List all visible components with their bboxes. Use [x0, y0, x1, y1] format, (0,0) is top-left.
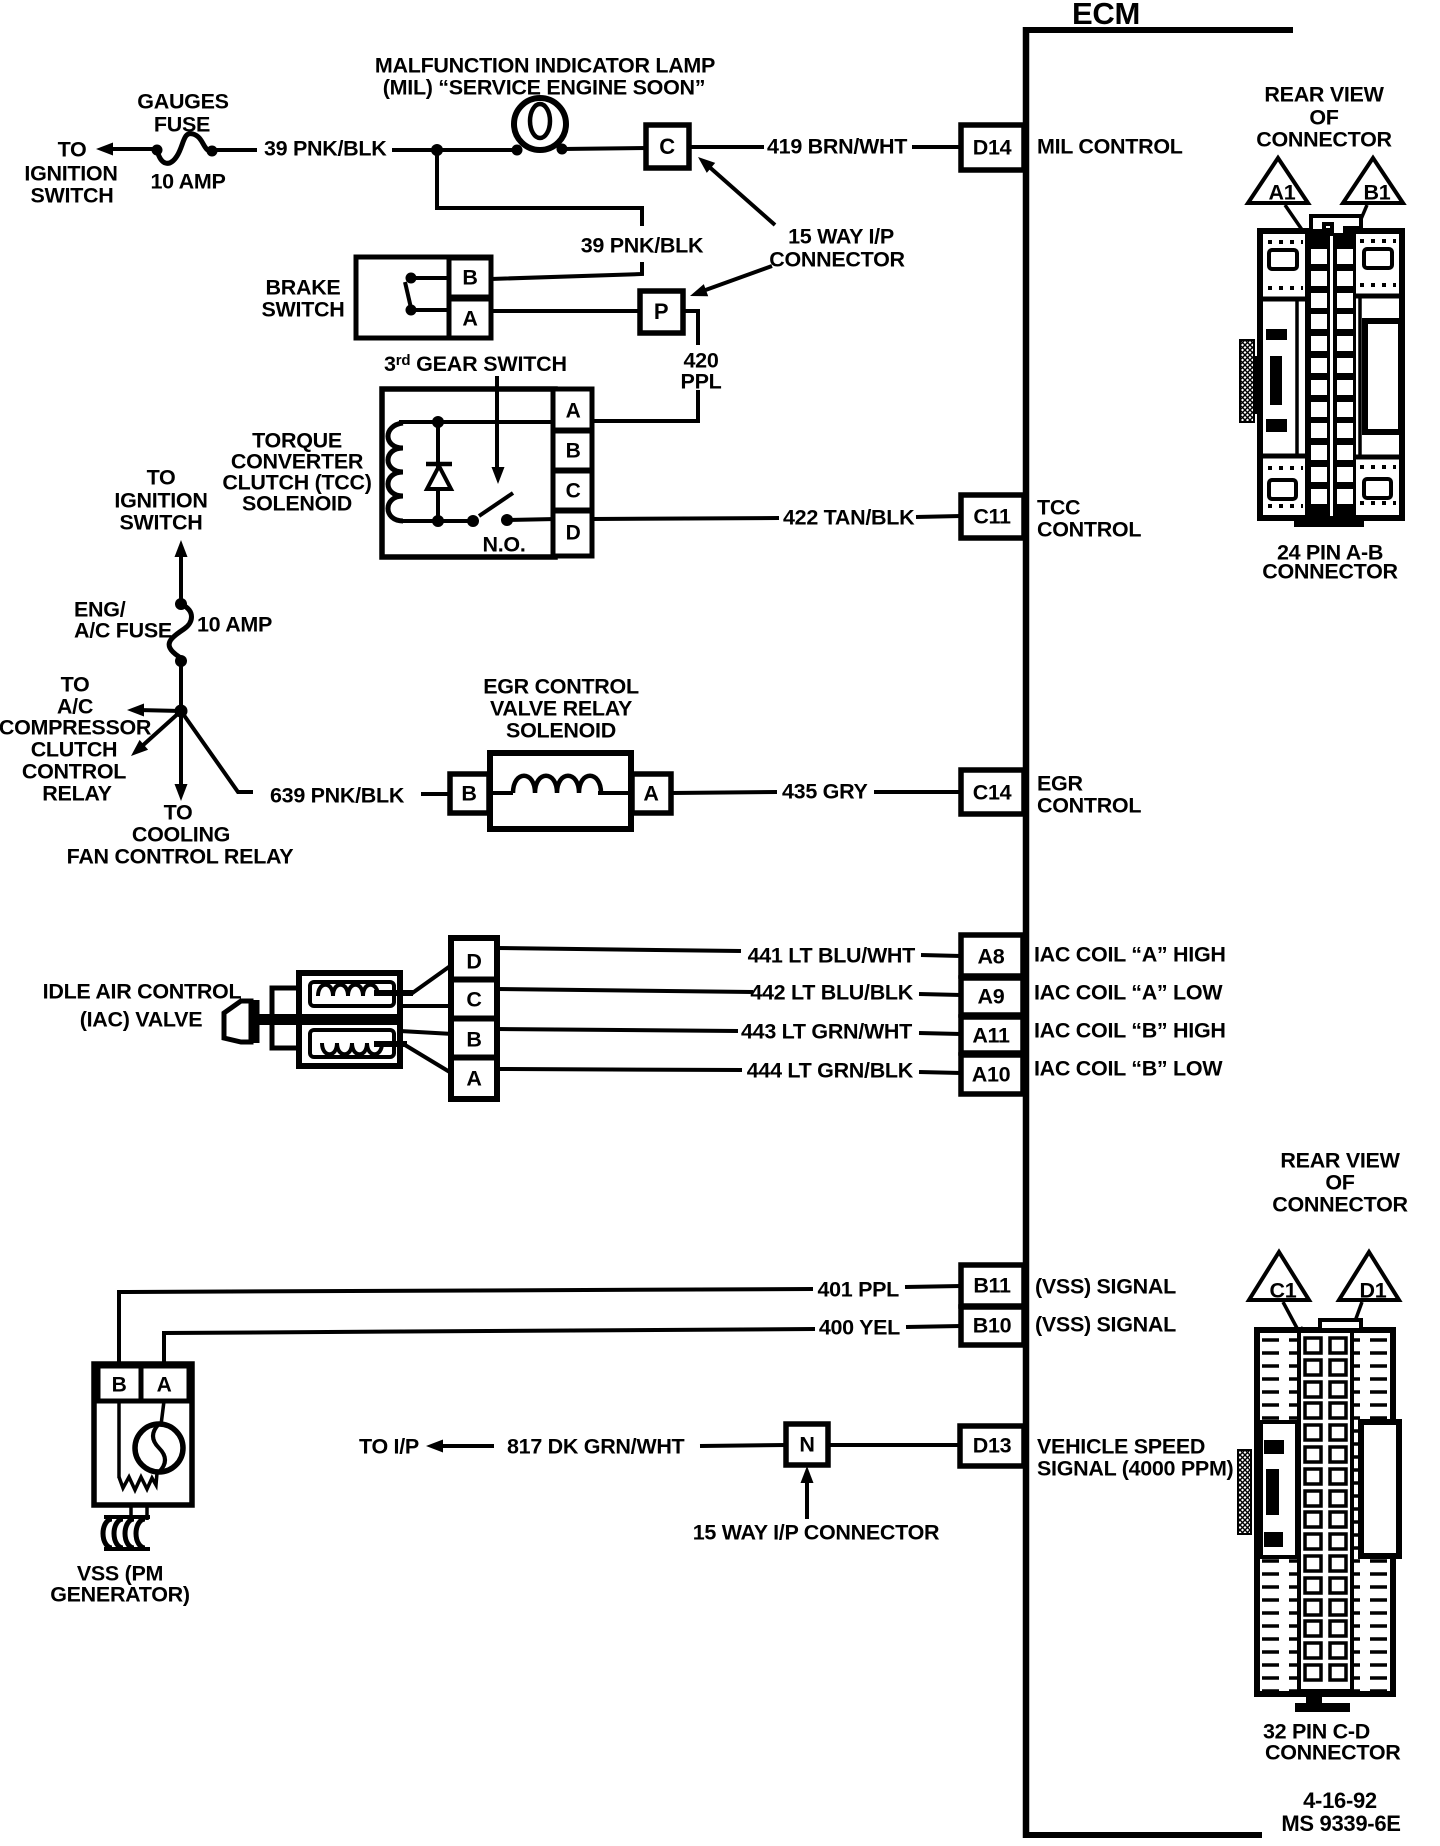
ECM top boundary line: [1023, 27, 1293, 33]
brake switch contacts: [411, 276, 449, 280]
svg-text:A1: A1: [1269, 181, 1296, 205]
svg-text:B10: B10: [973, 1314, 1012, 1338]
svg-text:B: B: [566, 439, 581, 462]
svg-text:OF: OF: [1309, 106, 1338, 130]
IAC coil A: [310, 982, 394, 1006]
IAC valve pintle cone: [224, 1001, 251, 1042]
TCC terminal block A B C D: [553, 389, 592, 556]
svg-text:SOLENOID: SOLENOID: [506, 719, 616, 743]
wire 639 label to EGR B: [421, 792, 452, 796]
svg-text:D: D: [466, 950, 481, 974]
arrow 15-way to pin C: [706, 164, 775, 225]
svg-text:CONNECTOR: CONNECTOR: [1265, 1741, 1401, 1765]
svg-text:TCC: TCC: [1037, 496, 1080, 520]
svg-text:COOLING: COOLING: [132, 823, 230, 847]
svg-text:CONNECTOR: CONNECTOR: [1272, 1193, 1408, 1217]
svg-text:MS 9339-6E: MS 9339-6E: [1281, 1811, 1400, 1836]
IAC valve shaft: [254, 1014, 397, 1025]
24 pin connector pins column B: [1337, 249, 1353, 264]
svg-text:B: B: [462, 266, 477, 290]
IAC valve collar: [272, 988, 300, 1048]
svg-text:CONTROL: CONTROL: [1037, 794, 1141, 818]
svg-text:IAC COIL “B” LOW: IAC COIL “B” LOW: [1034, 1057, 1223, 1081]
arrow D1 to connector: [1350, 1302, 1362, 1335]
arrow to ignition switch: [106, 147, 158, 151]
ECM bottom boundary line: [1023, 1832, 1262, 1838]
32 pin connector top tab: [1320, 1320, 1361, 1330]
svg-text:P: P: [654, 299, 668, 324]
wire 444 label to A10: [919, 1072, 961, 1073]
svg-text:444 LT GRN/BLK: 444 LT GRN/BLK: [747, 1059, 914, 1083]
arrow 3rd gear switch pointer: [495, 376, 499, 468]
wire junction to MIL lamp: [437, 148, 519, 152]
TCC solenoid body: [382, 389, 555, 557]
svg-text:VEHICLE SPEED: VEHICLE SPEED: [1037, 1435, 1205, 1459]
arrow C1 to connector: [1283, 1302, 1298, 1330]
IAC terminal block D C B A: [451, 938, 497, 1099]
svg-text:BRAKE: BRAKE: [266, 276, 341, 300]
ECM pin B11: [961, 1265, 1024, 1306]
TCC internal top wire: [399, 420, 556, 424]
callout triangle C1: [1249, 1252, 1309, 1300]
24 pin connector right cavity large: [1365, 321, 1401, 432]
32 pin connector pins column D: [1330, 1338, 1346, 1353]
EGR solenoid body: [490, 753, 631, 829]
VSS PM generator body: [94, 1364, 192, 1505]
svg-text:CONNECTOR: CONNECTOR: [1262, 560, 1398, 584]
svg-text:15 WAY I/P CONNECTOR: 15 WAY I/P CONNECTOR: [693, 1521, 940, 1545]
32 pin connector left cavity: [1261, 1422, 1297, 1557]
wire P to 420 PPL: [683, 311, 698, 345]
wire IAC A to 444 label: [497, 1069, 742, 1070]
wire 419 label to D14: [912, 145, 961, 149]
svg-text:GAUGES: GAUGES: [137, 90, 228, 114]
connector pin N (15 way I/P): [786, 1424, 828, 1465]
ECM pin D14: [961, 125, 1024, 170]
wire 422 label to C11: [916, 516, 961, 517]
node distribution junction: [175, 705, 188, 718]
wire 39 PNK/BLK branch: [437, 150, 642, 226]
ECM pin D13: [960, 1426, 1024, 1466]
wire IAC coil B high to terminal B: [400, 1031, 453, 1034]
callout triangle D1: [1339, 1252, 1399, 1300]
svg-text:CONTROL: CONTROL: [22, 760, 126, 784]
wire 817 label to N: [700, 1445, 786, 1446]
ECM pin A9: [961, 978, 1023, 1015]
wire 441 label to A8: [921, 955, 961, 956]
svg-text:A: A: [462, 307, 477, 331]
svg-text:C1: C1: [1270, 1279, 1297, 1303]
wire fuse to junction: [179, 661, 183, 713]
32 pin connector lock tab hatched: [1238, 1450, 1251, 1534]
svg-text:435 GRY: 435 GRY: [782, 780, 868, 804]
svg-text:IGNITION: IGNITION: [24, 162, 117, 186]
wire IAC B to 443 label: [497, 1029, 738, 1031]
svg-text:422 TAN/BLK: 422 TAN/BLK: [783, 506, 915, 530]
wire fuse to label 39 PNK/BLK: [212, 148, 257, 152]
wire TCC D to 422 label: [592, 518, 779, 519]
svg-text:B1: B1: [1364, 181, 1391, 205]
wire 401 label to B11: [905, 1286, 961, 1287]
wire 442 label to A9: [919, 994, 961, 995]
svg-text:REAR VIEW: REAR VIEW: [1280, 1149, 1400, 1173]
32 pin connector hatch lines: [1262, 1340, 1389, 1691]
24 pin connector top-left cavity: [1269, 250, 1297, 269]
24 pin connector bottom-left cavity: [1269, 480, 1296, 499]
fuse F2 ENG/AC 10 AMP: [175, 598, 187, 610]
svg-text:TO: TO: [164, 801, 193, 825]
svg-text:A: A: [643, 782, 658, 806]
svg-text:PPL: PPL: [681, 370, 722, 394]
arrow 15-way to pin N: [805, 1477, 809, 1519]
wire VSS A to 400 label: [164, 1329, 815, 1366]
ECM pin C14: [961, 770, 1024, 814]
wire EGR A to 435 label: [671, 792, 777, 793]
svg-text:RELAY: RELAY: [42, 782, 111, 806]
wire IAC coil B low to terminal A: [374, 1041, 407, 1047]
svg-text:ECM: ECM: [1072, 0, 1140, 31]
arrow B1 to connector: [1353, 205, 1367, 238]
svg-text:B11: B11: [973, 1274, 1011, 1298]
svg-text:B: B: [112, 1373, 127, 1396]
svg-text:N: N: [799, 1433, 814, 1457]
svg-text:N.O.: N.O.: [483, 533, 526, 557]
svg-text:CONNECTOR: CONNECTOR: [1256, 128, 1392, 152]
32 pin connector pin channel: [1299, 1331, 1352, 1691]
ECM pin C11: [961, 495, 1024, 538]
24 pin connector body: [1260, 231, 1402, 518]
svg-text:CONNECTOR: CONNECTOR: [769, 248, 905, 272]
ECM pin B10: [961, 1307, 1024, 1345]
svg-text:IGNITION: IGNITION: [114, 489, 207, 513]
wire junction to 639 PNK/BLK: [181, 711, 253, 792]
svg-text:400 YEL: 400 YEL: [819, 1316, 900, 1340]
fuse F1 GAUGES 10 AMP: [152, 145, 163, 156]
svg-text:442 LT BLU/BLK: 442 LT BLU/BLK: [750, 981, 913, 1005]
svg-text:C: C: [466, 988, 481, 1012]
brake switch terminal A: [449, 299, 491, 338]
svg-text:D13: D13: [973, 1434, 1012, 1458]
svg-text:A: A: [566, 399, 581, 422]
EGR solenoid terminal B: [450, 774, 489, 813]
32 pin connector right cavity large: [1361, 1422, 1399, 1556]
svg-text:IDLE AIR CONTROL: IDLE AIR CONTROL: [43, 980, 242, 1004]
svg-text:SIGNAL (4000 PPM): SIGNAL (4000 PPM): [1037, 1457, 1234, 1481]
24 pin connector keyway bars: [1266, 329, 1287, 340]
32 pin connector body: [1257, 1330, 1393, 1694]
arrow A1 to connector: [1285, 205, 1307, 237]
svg-text:CONTROL: CONTROL: [1037, 518, 1141, 542]
wire 400 label to B10: [906, 1326, 961, 1327]
wire IAC coil A high to terminal D: [374, 990, 413, 996]
svg-text:B: B: [461, 782, 476, 806]
node junction 39 PNK/BLK: [431, 144, 443, 156]
node TCC coil top: [432, 416, 444, 428]
ECM pin A10: [961, 1055, 1023, 1094]
svg-text:639 PNK/BLK: 639 PNK/BLK: [270, 784, 405, 808]
24 pin connector bottom tab: [1294, 518, 1364, 527]
svg-text:10 AMP: 10 AMP: [197, 613, 272, 637]
diode TCC clamp: [436, 422, 440, 521]
ECM pin A8: [961, 935, 1023, 976]
wire IAC coil A low to terminal C: [400, 1004, 453, 1008]
svg-text:15 WAY I/P: 15 WAY I/P: [788, 225, 894, 249]
wire 435 label to C14: [874, 790, 961, 794]
VSS terminal B: [98, 1366, 141, 1401]
svg-text:A: A: [466, 1067, 481, 1091]
brake switch terminal B: [449, 258, 491, 297]
callout triangle B1: [1343, 158, 1403, 203]
wire C to 419 label: [689, 145, 764, 149]
24 pin connector top-right cavity: [1364, 249, 1392, 268]
svg-text:C11: C11: [973, 505, 1011, 529]
svg-text:A8: A8: [978, 945, 1005, 969]
svg-text:TO: TO: [147, 466, 176, 490]
svg-text:EGR: EGR: [1037, 772, 1083, 796]
svg-text:FAN CONTROL RELAY: FAN CONTROL RELAY: [67, 845, 294, 869]
svg-text:4-16-92: 4-16-92: [1303, 1788, 1377, 1813]
IAC coil B: [310, 1030, 394, 1057]
svg-text:B: B: [466, 1028, 481, 1052]
svg-text:IAC COIL “A” LOW: IAC COIL “A” LOW: [1034, 981, 1223, 1005]
svg-text:A11: A11: [972, 1024, 1010, 1048]
svg-text:TO: TO: [61, 673, 90, 697]
svg-text:GENERATOR): GENERATOR): [50, 1583, 190, 1607]
svg-text:441 LT BLU/WHT: 441 LT BLU/WHT: [748, 944, 916, 968]
24 pin connector left rib: [1295, 300, 1299, 455]
wire VSS B to 401 label: [119, 1289, 813, 1366]
wire 420 PPL to TCC terminal A: [594, 390, 698, 421]
24 pin connector lock tab hatched: [1240, 340, 1254, 422]
svg-text:A10: A10: [972, 1063, 1011, 1087]
svg-text:39 PNK/BLK: 39 PNK/BLK: [581, 234, 704, 258]
24 pin connector pins column A: [1311, 249, 1327, 264]
svg-text:TO: TO: [58, 138, 87, 162]
brake switch body: [356, 257, 491, 338]
wire 443 label to A11: [919, 1033, 961, 1034]
svg-text:443 LT GRN/WHT: 443 LT GRN/WHT: [741, 1020, 912, 1044]
resistor in VSS: [117, 1401, 121, 1478]
24 pin connector bottom-right cavity: [1364, 479, 1391, 498]
wire IAC D to 441 label: [497, 948, 741, 951]
svg-text:TO I/P: TO I/P: [359, 1435, 419, 1459]
svg-text:39 PNK/BLK: 39 PNK/BLK: [264, 137, 387, 161]
svg-text:CLUTCH: CLUTCH: [31, 738, 118, 762]
TCC coil: [388, 423, 403, 521]
EGR solenoid terminal A: [632, 774, 671, 813]
TCC switch contacts: [467, 515, 479, 527]
wire N to D13: [828, 1443, 961, 1447]
svg-text:IAC COIL “B” HIGH: IAC COIL “B” HIGH: [1034, 1019, 1226, 1043]
svg-text:SWITCH: SWITCH: [120, 511, 203, 535]
svg-text:(IAC) VALVE: (IAC) VALVE: [80, 1008, 203, 1032]
svg-text:(VSS) SIGNAL: (VSS) SIGNAL: [1035, 1313, 1176, 1337]
arrow to A/C compressor relay (horizontal): [138, 710, 181, 711]
svg-text:3rd GEAR SWITCH: 3rd GEAR SWITCH: [384, 352, 567, 376]
IAC valve body: [299, 973, 400, 1066]
arrow 15-way to pin P: [700, 266, 772, 292]
svg-text:MIL CONTROL: MIL CONTROL: [1037, 135, 1183, 159]
VSS pickup coil: [129, 1505, 133, 1520]
32 pin connector bottom tab: [1306, 1694, 1322, 1706]
32 pin connector pins column C: [1305, 1338, 1321, 1353]
TCC internal bottom wire: [399, 519, 473, 523]
connector pin P (15 way I/P): [640, 291, 683, 333]
svg-text:EGR CONTROL: EGR CONTROL: [483, 675, 639, 699]
svg-text:10 AMP: 10 AMP: [150, 170, 225, 194]
wire IAC C to 442 label: [497, 989, 753, 992]
svg-text:D: D: [566, 521, 581, 544]
svg-text:SWITCH: SWITCH: [262, 298, 345, 322]
svg-text:419 BRN/WHT: 419 BRN/WHT: [767, 135, 907, 159]
svg-text:C: C: [566, 479, 581, 502]
svg-text:OF: OF: [1325, 1171, 1354, 1195]
svg-text:IAC COIL “A” HIGH: IAC COIL “A” HIGH: [1034, 943, 1226, 967]
svg-text:FUSE: FUSE: [154, 113, 210, 137]
svg-text:REAR VIEW: REAR VIEW: [1264, 83, 1384, 107]
svg-text:VALVE RELAY: VALVE RELAY: [490, 697, 632, 721]
svg-text:817 DK GRN/WHT: 817 DK GRN/WHT: [507, 1435, 685, 1459]
svg-text:MALFUNCTION INDICATOR LAMP: MALFUNCTION INDICATOR LAMP: [375, 54, 715, 78]
svg-text:A9: A9: [978, 985, 1005, 1009]
arrow up to ignition switch: [179, 556, 183, 606]
arrow to A/C compressor relay (diagonal): [141, 711, 181, 747]
connector pin C (15 way I/P): [646, 125, 689, 168]
svg-text:A: A: [157, 1373, 172, 1396]
wire branch label to brake switch B: [491, 262, 642, 279]
svg-text:D14: D14: [973, 136, 1012, 160]
svg-text:SOLENOID: SOLENOID: [242, 492, 352, 516]
ECM vertical boundary line: [1023, 27, 1030, 1838]
svg-text:C: C: [659, 134, 675, 159]
32 pin connector left keyway bars: [1264, 1440, 1284, 1454]
arrow to I/P: [436, 1444, 494, 1448]
24 pin connector pin channel: [1305, 233, 1356, 518]
svg-text:401 PPL: 401 PPL: [817, 1278, 899, 1302]
wire brake switch A to pin P: [491, 309, 642, 313]
svg-text:(VSS) SIGNAL: (VSS) SIGNAL: [1035, 1275, 1176, 1299]
svg-text:A/C FUSE: A/C FUSE: [74, 619, 172, 643]
svg-text:C14: C14: [973, 781, 1012, 805]
arrow to cooling fan relay: [179, 711, 183, 788]
node TCC coil bottom: [432, 515, 444, 527]
ECM pin A11: [961, 1017, 1023, 1053]
EGR solenoid coil: [490, 791, 513, 795]
wire lamp to connector C: [562, 148, 648, 149]
VSS generator symbol: [161, 1401, 164, 1425]
24 pin connector top tab: [1311, 216, 1361, 238]
wire label to junction: [392, 148, 440, 152]
svg-text:COMPRESSOR: COMPRESSOR: [0, 716, 152, 740]
svg-text:D1: D1: [1360, 1279, 1387, 1303]
callout triangle A1: [1248, 158, 1308, 203]
lamp MIL bulb: [514, 98, 566, 150]
VSS terminal A: [141, 1366, 189, 1401]
svg-text:SWITCH: SWITCH: [31, 184, 114, 208]
